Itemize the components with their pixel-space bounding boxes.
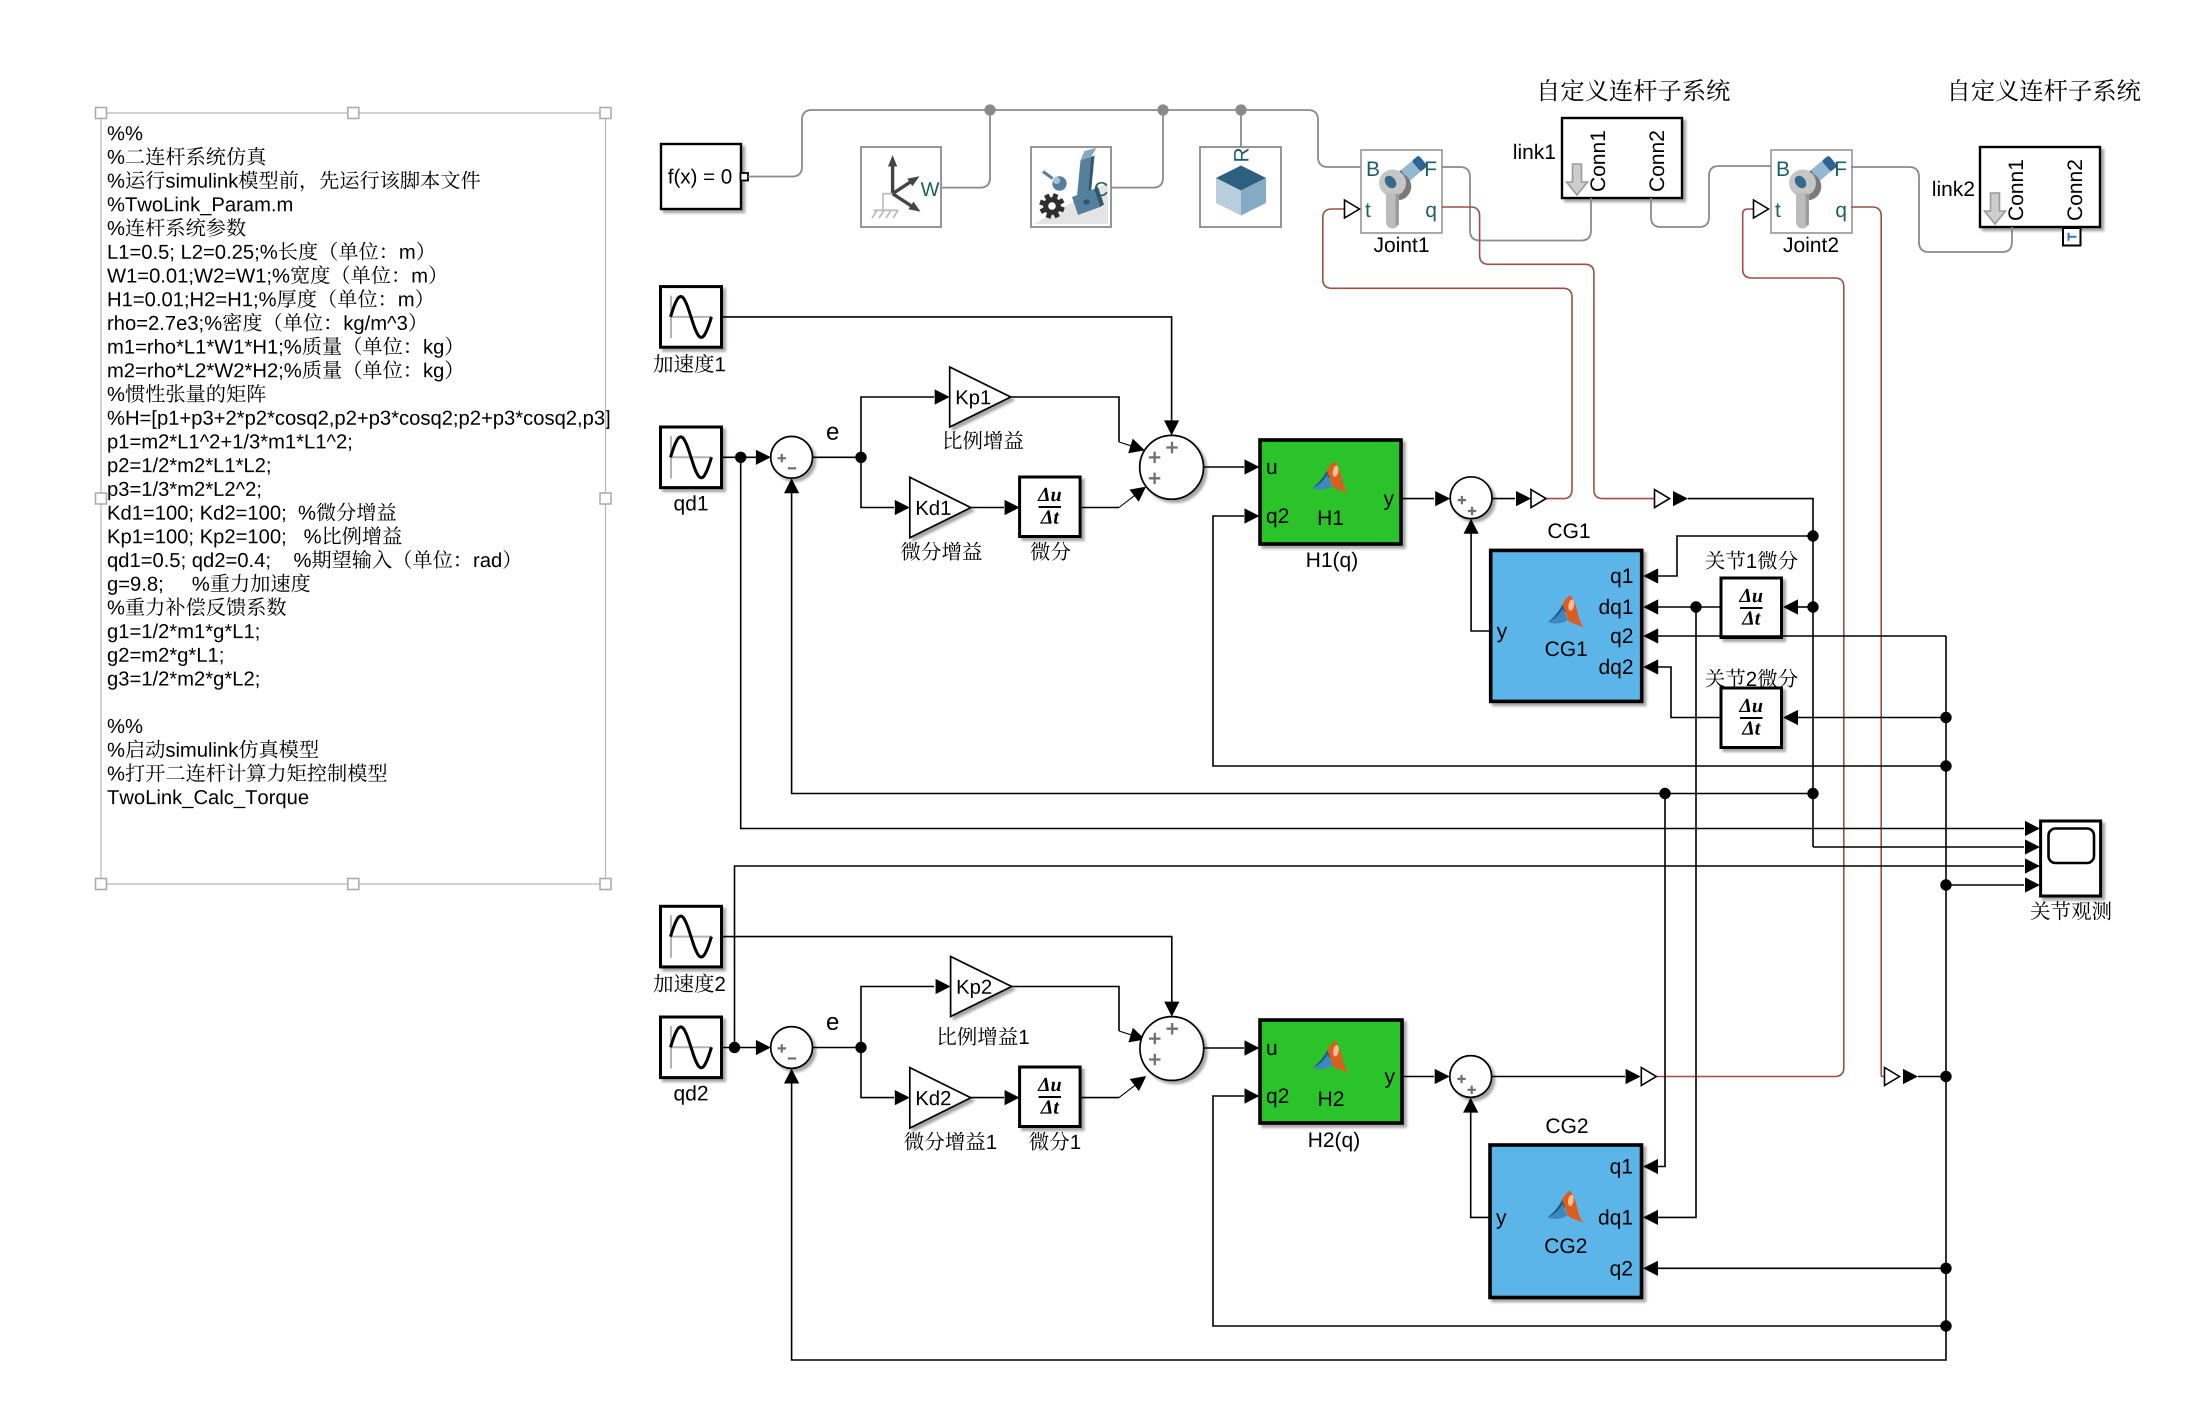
arrow into sum1 (756, 450, 771, 465)
sum block sumB2 (H2+CG2) (1450, 1056, 1492, 1098)
arrow converter q1 (filled) (1673, 491, 1688, 506)
open triangle converter q1 (1655, 490, 1670, 508)
gain Kd1 (910, 477, 971, 538)
arrow into sum2 bottom (784, 1069, 799, 1084)
wire q1 feedback rail (792, 481, 1813, 794)
block H1 (MATLAB function, green) (1260, 440, 1401, 544)
arrow converter q2 (filled) (1903, 1069, 1918, 1084)
sum block sumB1 (H1+CG1) (1450, 477, 1492, 519)
sum block big sum1 (+++) (1140, 435, 1204, 499)
label 微分1 (1029, 1132, 1080, 1151)
scope block 关节观测 (2041, 821, 2101, 896)
wire q2 to scope port4 (1946, 884, 2024, 886)
label custom-link-subsystem 1 (1541, 79, 1730, 102)
label e (loop2) (827, 1017, 838, 1030)
wire q2 to CG2.q2 (1657, 1267, 1947, 1269)
wire 加速度1 to big sum1 (722, 317, 1172, 434)
annotation selection frame (96, 108, 612, 890)
red wire torque tau2 to Joint2.t (1656, 209, 1844, 1077)
wire q2 to H2.q2 (1213, 1096, 1946, 1326)
wire q2 to CG1.q2 (1657, 635, 1946, 637)
source block 加速度2 (sine) (661, 906, 722, 967)
arrow into scope port2 (2025, 839, 2040, 854)
wire qd2 to scope port3 (735, 866, 2025, 1048)
arrow into CG1.q1 (1643, 568, 1658, 583)
derivative block 关节1微分 (flipped) (1721, 578, 1782, 638)
wire qd1 to sum1 (722, 456, 770, 458)
arrow into big sum1 top (1164, 420, 1179, 435)
label 加速度1 (654, 354, 725, 373)
branch dot q1-to-du1 (1807, 601, 1818, 612)
subsystem link2 (1980, 147, 2100, 227)
label link2 (1933, 181, 1974, 196)
arrow into H2.u (1245, 1040, 1260, 1055)
arrow into sumB2 bottom (1463, 1098, 1478, 1113)
label Joint2 (1783, 237, 1838, 252)
label custom-link-subsystem 2 (1951, 79, 2140, 102)
wire sumB1 to converter (1492, 498, 1515, 500)
wire Kd2 to 微分1 (971, 1097, 1004, 1099)
wire CG1.y to sumB1 bottom (1471, 521, 1491, 631)
wire dq1 to CG2.dq1 (1657, 607, 1697, 1217)
arrow into CG1.dq2 (1643, 659, 1658, 674)
arrow into CG2.q1 (1643, 1159, 1658, 1174)
open physical port below link2 Conn2 (2063, 228, 2081, 246)
arrow diag into big sum2 (Kd path) (1130, 1076, 1147, 1091)
wire qd1 to scope port1 (741, 458, 2024, 829)
arrow into CG2.q2 (1643, 1261, 1658, 1276)
arrow into Kp1 (935, 389, 950, 404)
hollow input arrow Joint1.t (1345, 200, 1360, 218)
arrow into H1.u (1245, 459, 1260, 474)
label 微分增益1 (904, 1132, 996, 1151)
arrow into 微分 (1005, 500, 1020, 515)
wire e2 to Kp2 (861, 987, 934, 1048)
arrow into CG1.q2 (1643, 628, 1658, 643)
block CG2 (MATLAB function, blue) (1490, 1145, 1642, 1298)
thin diagonal (Kp1 path) (1119, 442, 1134, 447)
wire 微分1 to big sum2 (1080, 1097, 1119, 1099)
block f(x)=0 Solver Configuration (661, 144, 748, 209)
arrow into Kp2 (936, 979, 951, 994)
arrow into 关节2微分 (1783, 710, 1798, 725)
label 微分 (1031, 542, 1071, 561)
arrow into H1.q2 (1245, 508, 1260, 523)
arrow converter tau1 (filled) (1516, 491, 1531, 506)
source block qd2 (sine) (661, 1017, 722, 1078)
wire 微分 to big sum1 (1080, 507, 1119, 509)
thin diagonal (Kd2 path) (1119, 1085, 1135, 1097)
arrow into 微分1 (1005, 1090, 1020, 1105)
wire q2 to H1.q2 (1213, 516, 1946, 766)
label H2(q) (1309, 1132, 1358, 1152)
label qd1 (674, 495, 707, 515)
wire physical bus (f(x)=0 / W / C / R to Joint1 B) (748, 110, 1361, 188)
sum block sum2 (+-) (771, 1027, 813, 1069)
branch dot e2 (855, 1042, 866, 1053)
CG1 right port labels (1599, 569, 1632, 679)
arrow converter tau2 (filled) (1626, 1069, 1641, 1084)
wire H1.y to sumB1 (1401, 498, 1434, 500)
label 微分增益 (901, 542, 982, 561)
gain Kp1 (950, 367, 1011, 427)
wire 关节1微分 out to dq1 line (1657, 606, 1721, 608)
wire e2 (sum2 out) (813, 1047, 862, 1049)
annotation text: TwoLink_Param.m script (107, 126, 609, 808)
arrow into Kd2 (895, 1090, 910, 1105)
block H2 (MATLAB function, green) (1260, 1020, 1402, 1123)
wire link1.Conn2 to Joint2.B (1651, 166, 1771, 227)
source block qd1 (sine) (661, 427, 722, 488)
arrow into sumB1 (1435, 491, 1450, 506)
red wire Joint1.q out (1442, 207, 1654, 499)
gain Kp2 (951, 957, 1012, 1017)
wire Kp2 to big sum2 (1012, 987, 1119, 1032)
wire 关节2微分 out to CG1.dq2 (1657, 667, 1721, 718)
wire Kp1 to big sum1 (1011, 397, 1119, 442)
label Joint1 (1374, 237, 1429, 252)
branch dot q2-from-joint2 (1940, 1071, 1951, 1082)
derivative block 微分1 (1020, 1067, 1081, 1127)
branch dot q2-H2 (1940, 1320, 1951, 1331)
thin diagonal (Kp2 path) (1119, 1031, 1134, 1036)
wire e1 to Kd1 (861, 457, 894, 507)
label 关节1微分 (1705, 551, 1797, 570)
hollow input arrow Joint2.t (1754, 200, 1769, 218)
branch dot e1 (855, 452, 866, 463)
arrow into sumB1 bottom (1464, 519, 1479, 534)
wire q2 rail vertical (792, 636, 1946, 1360)
arrow into 关节1微分 (1783, 599, 1798, 614)
wire 加速度2 to big sum2 (722, 937, 1172, 1015)
arrow diag into big sum1 (Kd path) (1130, 487, 1147, 502)
wire Joint2.F to link2.Conn1 (1851, 167, 2012, 252)
branch dot q2-du2 (1940, 712, 1951, 723)
open triangle converter tau2 (1641, 1068, 1656, 1086)
red wire torque tau1 to Joint1.t (1323, 209, 1572, 499)
sum block big sum2 (+++) (1140, 1017, 1204, 1081)
derivative block 关节2微分 (flipped) (1721, 688, 1782, 748)
block Joint1 (revolute) (1361, 150, 1442, 233)
block Solver (R) (1200, 147, 1281, 227)
label 关节2微分 (1705, 669, 1797, 688)
wire q1 to CG1.q1 (1657, 536, 1813, 576)
wire Joint2.q to q2 rail (1918, 1076, 1944, 1078)
wire CG2.y to sumB2 bottom (1471, 1100, 1490, 1217)
label CG1 (above block) (1548, 523, 1589, 538)
branch dot q1-to-CG2.q1 (1659, 788, 1670, 799)
label 关节观测 (2031, 901, 2111, 920)
label H1(q) (1307, 552, 1356, 572)
wire big sum1 to H1.u (1204, 466, 1245, 468)
wire big sum2 to H2.u (1204, 1047, 1244, 1049)
label link1 (1514, 144, 1555, 159)
gain Kd2 (910, 1068, 971, 1129)
wire e1 to Kp1 (861, 397, 934, 457)
wire Joint1.q to q1 rail (1688, 499, 1813, 847)
open triangle converter q2 (1885, 1068, 1900, 1086)
branch dot q1-feedback (1807, 788, 1818, 799)
sum block sum1 (+-) (771, 436, 813, 478)
wire qd2 to sum2 (722, 1047, 770, 1049)
branch dot q2-scope (1940, 879, 1951, 890)
branch dot q2-H1 (1940, 760, 1951, 771)
wire e2 to Kd2 (861, 1048, 894, 1098)
arrow into sumB2 (1435, 1069, 1450, 1084)
open triangle converter tau1 (1531, 490, 1546, 508)
label qd2 (674, 1085, 707, 1105)
arrow into sum1 bottom (784, 478, 799, 493)
CG2 right port labels (1599, 1159, 1632, 1280)
wire Joint1.F to link1.Conn1 (1442, 167, 1591, 241)
wire q1 to CG2.q1 (1657, 794, 1666, 1167)
arrow into big sum2 top (1164, 1002, 1179, 1017)
label e (loop1) (827, 427, 838, 440)
branch dot qd2 (729, 1042, 740, 1053)
arrow diag into big sum2 (Kp path) (1128, 1028, 1145, 1043)
arrow into Kd1 (895, 500, 910, 515)
label CG2 (above block) (1546, 1118, 1587, 1133)
label 比例增益 (944, 431, 1023, 450)
arrow into CG2.dq1 (1643, 1210, 1658, 1225)
block Mechanism Configuration (C) (1031, 147, 1111, 227)
wire q1 to 关节1微分 input (1797, 606, 1813, 608)
derivative block 微分 (1020, 477, 1081, 537)
arrow diag into big sum1 (Kp path) (1128, 439, 1145, 454)
arrow into sum2 (756, 1040, 771, 1055)
wire q2 rail to 关节2微分 input (1797, 717, 1946, 719)
red wire Joint2.q out (1851, 207, 1884, 1077)
label 加速度2 (654, 974, 725, 993)
arrow into H2.q2 (1245, 1088, 1260, 1103)
block Joint2 (revolute) (1771, 150, 1852, 233)
arrow into CG1.dq1 (1643, 599, 1658, 614)
junction dots on physical bus (984, 104, 1246, 115)
thin diagonal (Kd1 path) (1119, 495, 1135, 507)
wire H2.y to sumB2 (1402, 1076, 1434, 1078)
subsystem link1 (1562, 118, 1682, 198)
arrow into scope port1 (2025, 821, 2040, 836)
arrow into scope port4 (2025, 877, 2040, 892)
wire e1 (sum1 out) (813, 456, 862, 458)
branch dot dq1 (1690, 601, 1701, 612)
branch dot q1-to-CG1.q1 (1807, 530, 1818, 541)
wire sumB2 to converter (1492, 1076, 1625, 1078)
label 比例增益1 (939, 1027, 1029, 1046)
wire q1 to scope port2 (1813, 846, 2024, 848)
source block 加速度1 (sine) (661, 287, 722, 348)
wire Kd1 to 微分 (971, 507, 1004, 509)
block World Frame (W) (861, 147, 941, 227)
arrow into scope port3 (2025, 858, 2040, 873)
branch dot q2-CG2 (1940, 1263, 1951, 1274)
block CG1 (MATLAB function, blue) (1491, 550, 1642, 701)
branch dot qd1 (735, 452, 746, 463)
